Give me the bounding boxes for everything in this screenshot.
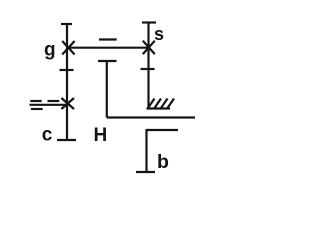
coupling dash bottom bbox=[31, 108, 43, 110]
ground hatch 1 bbox=[148, 99, 155, 109]
ground hatch 2 bbox=[155, 99, 162, 109]
svg-text:c: c bbox=[42, 125, 53, 146]
shaft c bottom bearing cap bbox=[57, 139, 76, 141]
ground hatch 4 bbox=[168, 99, 175, 109]
svg-text:s: s bbox=[154, 24, 164, 44]
gear mesh X node g bbox=[62, 41, 74, 55]
ground baseline bbox=[147, 107, 171, 109]
carrier H top cap bbox=[98, 60, 117, 62]
gear mesh X node c bbox=[61, 98, 74, 109]
svg-text:H: H bbox=[94, 125, 108, 146]
shaft s top bearing cap bbox=[142, 21, 156, 23]
shaft s vertical bbox=[147, 23, 149, 109]
coupling long line bbox=[30, 104, 68, 106]
ring b bottom bearing cap bbox=[136, 171, 155, 173]
shaft c vertical bbox=[66, 24, 68, 140]
carrier H horizontal arm bbox=[107, 116, 195, 118]
svg-text:g: g bbox=[44, 40, 56, 61]
planet gear dash bbox=[99, 38, 117, 40]
gear mesh X node s bbox=[143, 41, 155, 54]
coupling dash top right bbox=[48, 100, 60, 102]
shaft c tick bbox=[60, 69, 74, 71]
shaft c top bearing cap bbox=[61, 23, 72, 25]
carrier H stem bbox=[106, 61, 108, 118]
wire main horizontal g-s bbox=[67, 47, 149, 49]
ground hatch 3 bbox=[161, 99, 168, 109]
svg-text:b: b bbox=[157, 151, 169, 173]
coupling dash top left bbox=[30, 100, 41, 102]
shaft s tick bbox=[141, 68, 155, 70]
ring b vertical bbox=[145, 129, 147, 172]
ring b horizontal arm bbox=[147, 129, 179, 131]
